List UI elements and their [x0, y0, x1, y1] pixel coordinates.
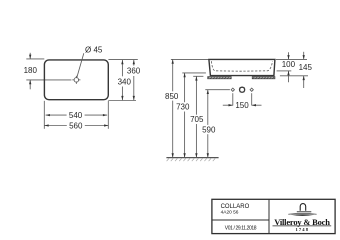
floor hatching: [167, 158, 216, 161]
dimension 340: [118, 60, 132, 100]
drain circle: [240, 87, 245, 92]
wire ext from diamond right down: [251, 93, 253, 105]
svg-text:4A20 56: 4A20 56: [221, 209, 239, 215]
dimension 850: [165, 59, 179, 157]
svg-text:100: 100: [282, 60, 296, 69]
dimension 150: [223, 101, 262, 110]
dimension 730: [176, 73, 190, 158]
wire ext line 145 bottom: [280, 75, 308, 77]
svg-text:360: 360: [127, 67, 141, 76]
wire ext line 730: [182, 72, 206, 74]
svg-text:1748: 1748: [296, 227, 310, 232]
title block horizontal divider: [212, 219, 269, 221]
svg-text:705: 705: [190, 115, 204, 124]
title block frame: [212, 199, 335, 233]
dimension 560: [44, 121, 108, 130]
wire ext line 705: [193, 75, 203, 77]
logo plinth: [297, 211, 312, 213]
svg-text:590: 590: [202, 125, 216, 134]
wire ext line top-left of basin: [26, 58, 44, 60]
svg-text:Ø 45: Ø 45: [85, 46, 103, 55]
basin outline top view: [44, 60, 108, 100]
fixing hole diamond left: [231, 88, 234, 91]
dimension 540: [46, 111, 108, 120]
wire ext line 590: [205, 89, 230, 91]
dimension 180: [24, 53, 38, 90]
svg-text:850: 850: [165, 92, 179, 101]
wire ext line bottom-right of basin: [108, 100, 136, 102]
basin side outline: [209, 59, 275, 75]
wire ext vertical bottom-left: [43, 101, 45, 129]
svg-text:560: 560: [69, 121, 83, 130]
logo lens upper: [288, 212, 316, 215]
dimension 145: [299, 52, 313, 88]
svg-text:V01 / 29.11.2018: V01 / 29.11.2018: [225, 225, 257, 231]
wire ext line hole center to left: [26, 79, 71, 81]
svg-text:150: 150: [235, 101, 249, 110]
basin inner dashed profile: [211, 61, 272, 71]
logo lens body: [291, 214, 315, 216]
tape strip left: [208, 77, 232, 79]
title block vertical divider: [268, 199, 270, 233]
floor line: [166, 157, 218, 159]
svg-text:730: 730: [176, 103, 190, 112]
dimension 705: [190, 76, 204, 157]
logo underline: [273, 225, 332, 227]
leader line Ø45: [77, 53, 84, 77]
svg-text:340: 340: [118, 77, 132, 86]
tap hole Ø45: [72, 76, 80, 84]
logo arch: [300, 204, 306, 211]
wire ext line 850 top: [171, 58, 209, 60]
svg-text:180: 180: [24, 66, 38, 75]
svg-text:540: 540: [69, 111, 83, 120]
fixing hole diamond right: [250, 88, 253, 91]
dimension 100: [282, 52, 296, 82]
wire ext from diamond left down: [232, 93, 234, 105]
svg-text:145: 145: [299, 63, 313, 72]
wire ext line 100 bottom: [277, 70, 292, 72]
wire ext line top-right of basin: [108, 58, 137, 60]
tape strip right: [252, 77, 275, 79]
dimension 590: [202, 90, 216, 158]
wire ext line top right: [276, 58, 307, 60]
wire ext vertical bottom-right: [107, 101, 109, 129]
svg-text:Villeroy & Boch: Villeroy & Boch: [274, 217, 330, 227]
svg-text:COLLARO: COLLARO: [221, 204, 250, 210]
dimension 360: [127, 60, 141, 100]
